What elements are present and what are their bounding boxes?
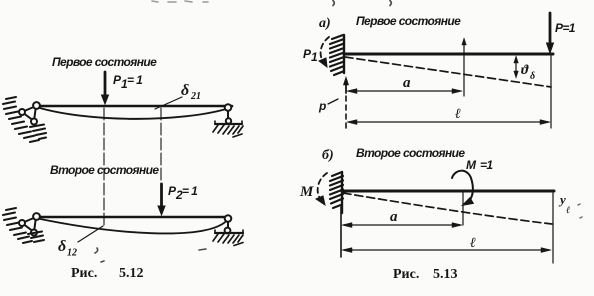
label p with leader [318, 99, 326, 113]
unit load P=1 at free end [547, 13, 554, 53]
svg-text:M: M [466, 158, 477, 172]
svg-text:21: 21 [190, 91, 201, 102]
svg-text:б): б) [322, 148, 334, 163]
deflection curve 1 [38, 108, 228, 119]
label delta21 with leader [181, 82, 201, 102]
dimension l (fig a) [349, 121, 548, 123]
beam 1 [36, 105, 232, 108]
dimension a (fig a) [349, 90, 460, 92]
reaction moment M (dashed arc arrow) [299, 184, 314, 200]
beam a (cantilever, state 1) [344, 53, 553, 56]
dimension a (fig b) [344, 224, 460, 226]
svg-text:5.13: 5.13 [433, 267, 458, 282]
stray ink comma marks [95, 248, 206, 262]
right extension line b [552, 193, 554, 263]
svg-text:12: 12 [67, 248, 77, 259]
svg-text:Второе состояние: Второе состояние [50, 163, 159, 177]
label delta12 with leader [58, 238, 77, 259]
label: Первое состояние (state 1) [52, 55, 157, 69]
label a) [319, 16, 331, 31]
load arrow P2=1 [158, 184, 165, 215]
label y_l at free end [558, 192, 570, 216]
dimension l (fig b) [344, 249, 549, 251]
unit moment M=1 (curved arrow) [466, 158, 493, 172]
svg-text:ℓ: ℓ [455, 107, 461, 122]
svg-text:δ: δ [58, 238, 66, 255]
svg-text:а: а [403, 75, 411, 91]
svg-text:Второе состояние: Второе состояние [356, 146, 465, 160]
left extension line b [340, 207, 342, 257]
svg-text:ϑ: ϑ [521, 63, 529, 78]
vertical reference line point 1 [103, 108, 105, 225]
roller support B (beam 1 right) [215, 104, 242, 124]
deflection measure v_delta (double arrow) [515, 60, 517, 74]
svg-text:Первое состояние: Первое состояние [356, 14, 461, 28]
label: Первое состояние [356, 14, 461, 28]
svg-text:а: а [390, 209, 398, 225]
svg-text:Первое состояние: Первое состояние [52, 55, 157, 69]
load arrow P1=1 [102, 72, 109, 104]
right extension line a [550, 56, 552, 128]
fixed wall a with hatching [330, 35, 344, 75]
reaction moment P1 (dashed arc arrow) [303, 47, 318, 64]
deflection curve 2 [38, 219, 227, 234]
beam b (cantilever, state 2) [342, 190, 554, 193]
label P1=1 [113, 73, 143, 91]
faint cropped text remnants top edge [152, 1, 208, 2]
deflected axis a (dashed) [345, 57, 551, 87]
label b) [322, 148, 334, 163]
svg-text:ℓ: ℓ [470, 236, 476, 251]
label: Второе состояние [356, 146, 465, 160]
roller support B (beam 2 right) [215, 215, 243, 233]
svg-text:y: y [558, 192, 566, 207]
svg-text:= 1: = 1 [182, 184, 198, 198]
svg-text:= 1: = 1 [127, 73, 143, 87]
caption Рис. 5.12 [71, 266, 144, 281]
fixed wall b with hatching [330, 172, 343, 208]
label: Второе состояние (state 2) [50, 163, 159, 177]
caption Рис. 5.13 [393, 267, 458, 282]
svg-text:5.12: 5.12 [119, 266, 144, 281]
svg-text:δ: δ [530, 71, 535, 82]
svg-text:M: M [299, 184, 314, 200]
pinned support A (beam 1 left) [19, 102, 40, 124]
stray specks [578, 204, 582, 218]
svg-text:P=1: P=1 [555, 21, 576, 35]
deflected axis b (dashed) [343, 193, 552, 224]
svg-text:=1: =1 [480, 158, 493, 172]
ordinate line at x=a with small up arrow [463, 44, 465, 96]
svg-text:1: 1 [311, 50, 318, 64]
svg-text:Рис.: Рис. [71, 266, 97, 281]
label P=1 [555, 21, 576, 35]
label P2=1 [168, 184, 198, 202]
reaction force arrow P (up) with dashed line [345, 81, 347, 93]
ordinate line at x=a (fig b) [462, 192, 464, 225]
svg-text:Рис.: Рис. [393, 267, 419, 282]
label v_delta [521, 63, 535, 82]
beam 2 [36, 216, 230, 219]
vertical reference line point 2 [160, 108, 162, 213]
svg-text:ℓ: ℓ [566, 205, 570, 216]
svg-text:а): а) [319, 16, 331, 31]
svg-text:p: p [318, 99, 326, 113]
pinned support A (beam 2 left) [19, 213, 40, 235]
